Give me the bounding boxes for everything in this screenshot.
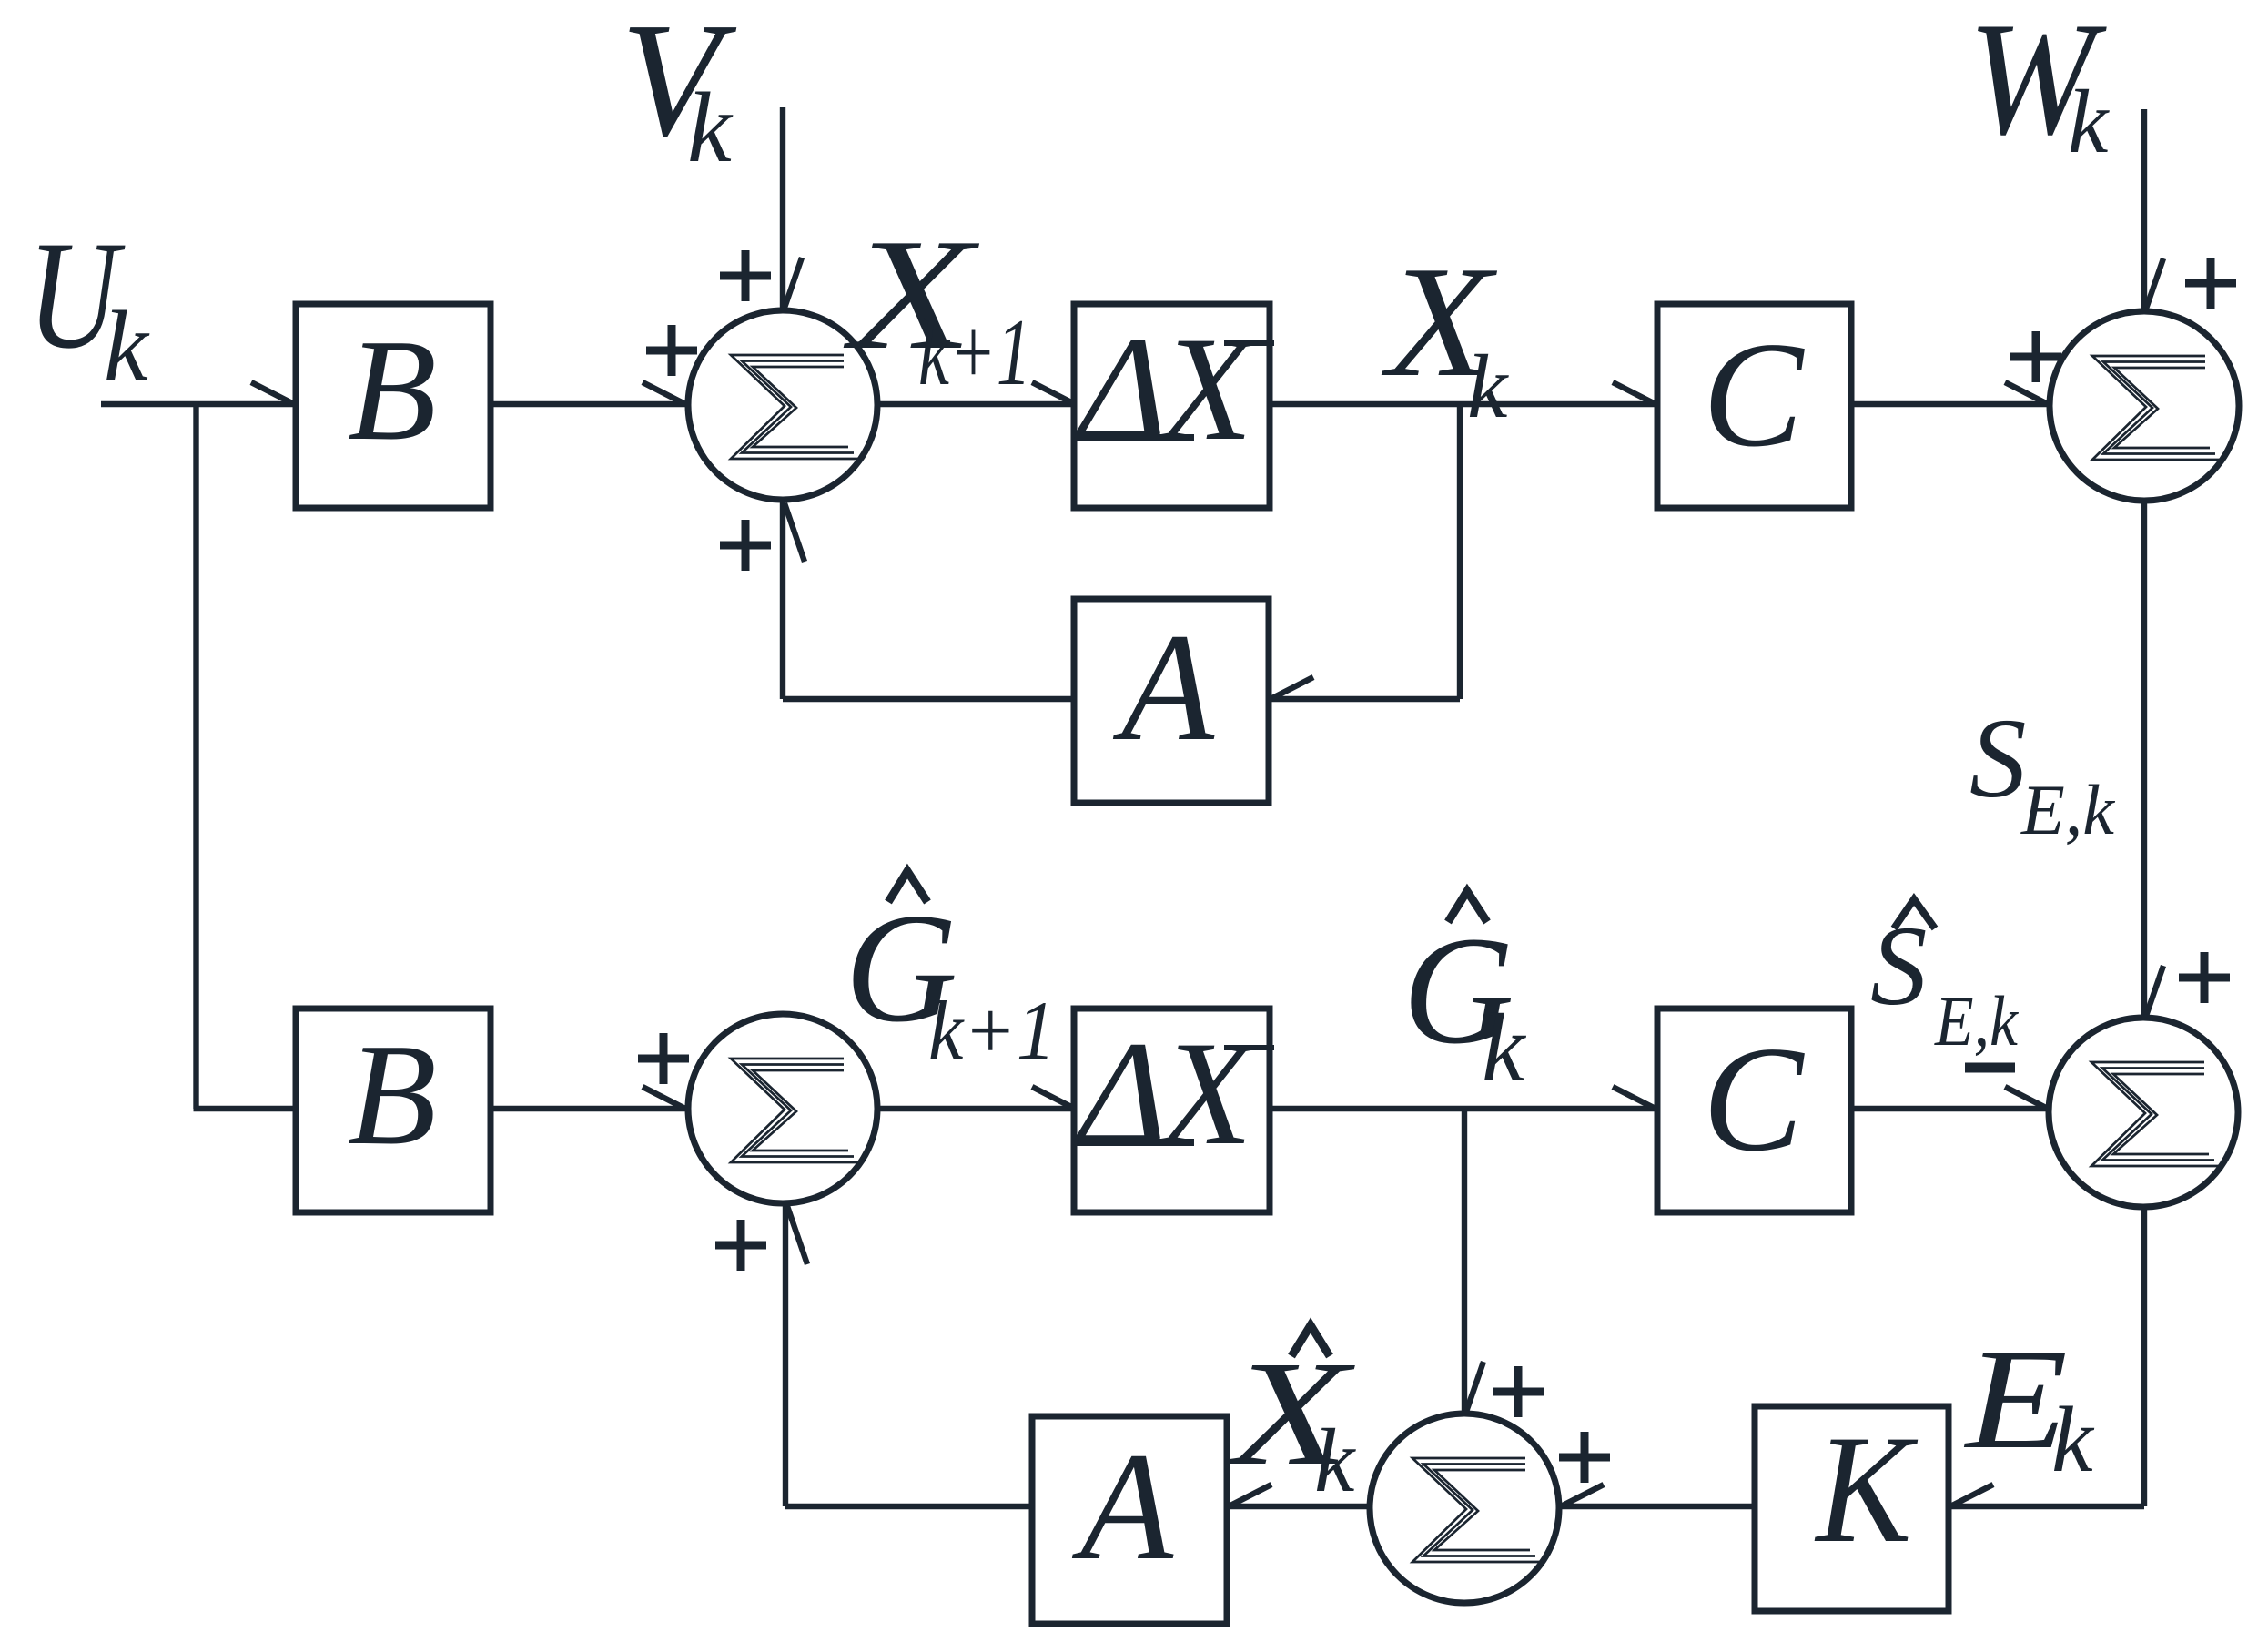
- svg-text:A: A: [1071, 1421, 1174, 1592]
- svg-text:ΔX: ΔX: [1074, 307, 1258, 471]
- svg-text:k: k: [1467, 336, 1509, 437]
- svg-text:k: k: [1482, 995, 1527, 1102]
- svg-text:A: A: [1112, 602, 1215, 773]
- svg-text:E,k: E,k: [2020, 770, 2115, 849]
- svg-text:k: k: [104, 290, 150, 401]
- svg-text:S: S: [1870, 904, 1928, 1029]
- svg-text:k: k: [1314, 1410, 1356, 1511]
- svg-text:E,k: E,k: [1934, 981, 2019, 1060]
- svg-text:k: k: [687, 72, 734, 183]
- svg-text:B: B: [348, 1013, 437, 1175]
- svg-text:ΔX: ΔX: [1074, 1011, 1258, 1176]
- svg-text:k: k: [2068, 71, 2110, 172]
- svg-text:B: B: [348, 309, 437, 471]
- svg-text:K: K: [1815, 1404, 1919, 1575]
- svg-text:k+1: k+1: [918, 299, 1031, 405]
- svg-text:C: C: [1703, 310, 1806, 478]
- svg-text:C: C: [1703, 1015, 1806, 1182]
- svg-text:k+1: k+1: [928, 984, 1056, 1077]
- svg-text:S: S: [1969, 696, 2027, 822]
- svg-text:k: k: [2051, 1388, 2095, 1492]
